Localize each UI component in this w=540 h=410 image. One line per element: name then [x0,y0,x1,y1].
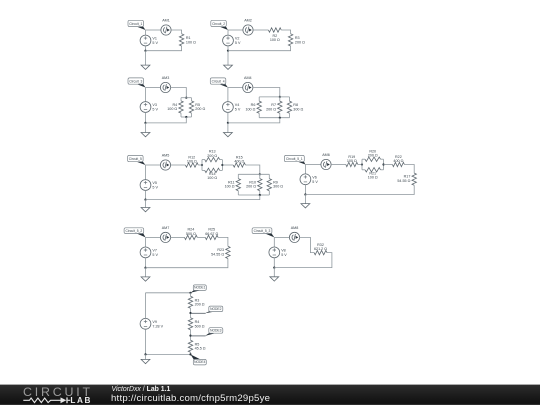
wire V5 to bottom rail [145,190,147,199]
wire AM6 to R19 [331,164,346,166]
svg-text:VictorDxx / Lab 1.1: VictorDxx / Lab 1.1 [112,386,171,393]
ground [141,123,150,137]
junction NODE3 [189,335,191,337]
ammeter AM4 [243,82,253,92]
flag NODE1 [191,285,207,293]
flag Circuit_5 [128,155,146,165]
wire into R20 [362,158,365,160]
label R10 200 [246,180,256,188]
svg-text:Circuit_5_2: Circuit_5_2 [126,229,143,233]
wire node to V1 [145,30,147,35]
resistor R14 [205,168,220,172]
wire out of R8 [289,113,291,117]
wire left edge R20-R21 [361,159,363,170]
svg-text:5 V: 5 V [312,180,318,184]
label V9 7.28 V [152,320,163,328]
resistor R12 [185,163,198,167]
wire top edge R4-R5 [181,97,192,99]
wire pair to R22 [384,164,393,166]
label V1 5 V [152,37,158,45]
wire into R13 [202,159,205,161]
wire R5d to bottom rail [190,352,192,354]
junction bottom node circuit 8 [273,267,275,269]
label R32 621.2 [314,243,327,251]
ammeter AM5 [160,160,170,170]
wire R23 to bottom rail [146,259,228,268]
svg-text:AM2: AM2 [244,19,252,23]
label R11 100 [225,180,235,188]
label R24 500 [186,228,196,236]
voltage source V8 [269,247,280,258]
wire V6 to bottom rail [304,185,306,195]
ground [301,195,310,208]
junction bottom of R4 R5 pair [185,116,187,118]
ammeter AM1 [161,25,171,35]
svg-text:NODE3: NODE3 [210,329,222,333]
resistor R3 [288,34,292,46]
resistor R9 [267,179,271,191]
wire node to V3 [145,88,147,102]
label R5 45.5 divider [195,342,206,350]
label V7 5 V [152,249,158,257]
label AM3 [162,76,170,80]
junction top of R11 R10 R9 trio [259,173,261,175]
wire into R11 [237,174,239,178]
resistor R6 [257,101,261,113]
wire AM8 to R32 [300,237,315,252]
junction bottom node circuit 3 [144,122,146,124]
label R6 100 [245,103,255,111]
wire AM5 to R12 [171,164,186,166]
resistor R5 [189,101,193,113]
wire R25 to R23 [218,237,228,246]
wire into R8 [289,97,291,101]
svg-text:Circuit_5_1: Circuit_5_1 [286,157,303,161]
junction bottom of trio [279,117,281,119]
svg-text:NODE2: NODE2 [210,307,222,311]
voltage source V5 [140,180,151,191]
svg-text:100 Ω: 100 Ω [245,107,255,111]
svg-text:100 Ω: 100 Ω [207,176,217,180]
resistor R7 [278,101,282,113]
junction bottom node circuit 4 [227,122,229,124]
svg-text:Circuit_4: Circuit_4 [212,80,225,84]
wire R24 to R25 [197,236,205,238]
flag NODE3 [191,328,223,336]
resistor R13 [205,157,220,161]
wire bottom rail divider [146,353,191,355]
label V8 5 V [281,249,287,257]
wire R17 to bottom rail [305,185,414,194]
wire out of R5 [191,113,193,117]
voltage source V4 [223,102,234,113]
wire node to V4 [227,88,229,102]
wire out of R21 [381,169,384,171]
ammeter AM2 [243,25,253,35]
wire out of R6 [258,113,260,117]
wire top edge R11-R10-R9 [238,173,269,175]
wire AM1 to R1 [171,30,182,34]
resistor R22 [392,162,404,166]
svg-text:500 Ω: 500 Ω [195,324,205,328]
wire R32 to bottom rail [274,253,332,268]
voltage source V7 [140,247,151,258]
svg-text:Circuit_1: Circuit_1 [129,22,142,26]
svg-text:500 Ω: 500 Ω [186,232,196,236]
svg-text:7.28 V: 7.28 V [152,324,163,328]
resistor R2 [268,28,281,32]
wire node to AM5 [146,164,161,166]
junction bottom node circuit 5 [144,199,146,201]
wire bottom edge trio [238,194,269,196]
ground divider [141,354,150,363]
label V6 5 V [312,176,318,184]
wire R4d to R5d [190,330,192,340]
ammeter AM3 [160,82,170,92]
junction divider ground [144,353,146,355]
label AM7 [162,226,170,230]
junction bottom of trio C5 [259,194,261,196]
label R20 200 [368,149,378,157]
flag NODE2 [191,306,223,313]
svg-text:54.55 Ω: 54.55 Ω [397,179,410,183]
wire bottom edge R6-R7-R8 [259,117,289,119]
wire R12 to pair box [198,164,202,166]
svg-text:5 V: 5 V [281,253,287,257]
wire out of R9 [268,191,270,195]
flag NODE4 [191,354,207,365]
svg-text:400 Ω: 400 Ω [393,159,403,163]
svg-text:LAB: LAB [70,396,92,405]
wire into R6 [258,97,260,101]
wire out of R13 [220,159,223,161]
voltage source V9 [140,318,151,329]
svg-text:AM4: AM4 [244,76,252,80]
svg-text:5 V: 5 V [152,108,158,112]
wire R15 to trio box [245,165,259,174]
wire to V9 top [145,293,147,319]
wire NODE1 to R3d [190,293,192,296]
svg-text:100 Ω: 100 Ω [347,159,357,163]
flag Circuit_5_1 [284,155,305,164]
label V4 5 V [235,103,241,111]
CircuitLab logo [23,385,93,405]
wire out of R20 [381,158,384,160]
svg-text:200 Ω: 200 Ω [295,41,305,45]
svg-text:Circuit_3: Circuit_3 [129,80,142,84]
junction right of pair C6 [382,163,384,165]
wire node to V6 [304,165,306,174]
junction left of R13 R14 pair [201,164,203,166]
resistor R10 [258,179,262,191]
junction top of R6 R7 R8 trio [279,96,281,98]
wire right edge R20-R21 [383,159,385,170]
wire trio to bottom rail [228,118,280,123]
label V3 5 V [152,103,158,111]
ground [270,268,279,282]
wire top edge R6-R7-R8 [259,96,289,98]
wire R1 to bottom rail [146,46,182,51]
wire into R5 [191,98,193,101]
junction bottom node circuit 7 [144,267,146,269]
wire trio to bottom rail C5 [146,195,260,200]
flag Circuit_3 [128,78,146,88]
resistor R4 divider [188,318,192,330]
flag Circuit_5_3 [252,228,274,238]
ground [141,200,150,212]
svg-text:621.2 Ω: 621.2 Ω [314,247,327,251]
svg-text:200 Ω: 200 Ω [266,107,276,111]
label R23 54.55 [211,248,224,256]
svg-text:http://circuitlab.com/cfnp5rm2: http://circuitlab.com/cfnp5rm29p5ye [111,393,270,404]
label R19 100 [347,155,357,163]
svg-text:300 Ω: 300 Ω [293,107,303,111]
label AM2 [244,19,252,23]
wire node to V8 [273,237,275,247]
flag Circuit_1 [128,20,146,30]
ammeter AM8 [289,232,299,242]
svg-text:AM7: AM7 [162,226,170,230]
wire node to AM3 [146,87,161,89]
svg-text:AM1: AM1 [162,19,170,23]
label AM5 [162,154,170,158]
wire top rail divider [146,292,191,294]
wire into R10 [259,174,261,178]
resistor R4 [179,101,183,113]
label R4 500 divider [195,320,205,328]
resistor R32 [314,250,327,254]
svg-text:54.55 Ω: 54.55 Ω [211,252,224,256]
label R21 100 [368,171,378,179]
wire into R21 [362,169,365,171]
wire node to V7 [145,237,147,247]
wire V4 to bottom rail [227,112,229,123]
label R3 200 [295,36,305,44]
wire node to AM1 [146,29,161,31]
junction NODE2 [189,312,191,314]
svg-text:200 Ω: 200 Ω [246,185,256,189]
label AM4 [244,76,252,80]
wire R3d to R4d [190,308,192,318]
svg-text:200 Ω: 200 Ω [195,303,205,307]
wire into R9 [268,174,270,178]
wire pair to bottom rail [146,117,187,123]
svg-text:5 V: 5 V [152,186,158,190]
ammeter AM7 [160,232,170,242]
svg-text:100 Ω: 100 Ω [186,41,196,45]
ground [224,123,233,137]
wire V2 to bottom rail [227,46,229,51]
resistor R21 [365,168,381,172]
label R4 100 [167,103,177,111]
resistor R5 divider [188,340,192,352]
svg-text:200 Ω: 200 Ω [207,154,217,158]
wire V3 to bottom rail [145,112,147,123]
wire pair to R15 [222,164,233,166]
resistor R20 [365,157,381,161]
wire out of R4 [180,113,182,117]
svg-text:300 Ω: 300 Ω [273,185,283,189]
label R12 100 [187,155,197,163]
wire out of R11 [237,191,239,195]
wire V1 to bottom rail [145,46,147,51]
label R2 100 [270,34,280,42]
svg-text:5 V: 5 V [152,253,158,257]
svg-text:400 Ω: 400 Ω [234,160,244,164]
svg-text:5 V: 5 V [152,41,158,45]
svg-text:AM5: AM5 [162,154,170,158]
junction bottom node circuit 2 [227,50,229,52]
svg-text:100 Ω: 100 Ω [225,185,235,189]
svg-text:Circuit_5_3: Circuit_5_3 [254,229,271,233]
svg-text:AM8: AM8 [291,226,299,230]
ground [224,51,233,70]
resistor R17 [412,173,416,185]
resistor R15 [233,163,245,167]
resistor R3 divider [188,296,192,308]
voltage source V2 [223,35,234,46]
junction top of R4 R5 pair [185,97,187,99]
svg-text:NODE1: NODE1 [194,286,206,290]
wire AM3 to parallel pair [171,88,187,98]
svg-text:200 Ω: 200 Ω [368,154,378,158]
wire node to AM6 [305,164,321,166]
label R22 400 [393,155,403,163]
ground [141,268,150,282]
wire right edge R13-R14 [221,160,223,171]
wire bottom edge R4-R5 [181,116,192,118]
label R17 54.55 [397,175,410,183]
svg-text:5 V: 5 V [235,41,241,45]
ammeter AM6 [321,159,331,169]
svg-text:NODE4: NODE4 [194,360,206,364]
svg-text:100 Ω: 100 Ω [270,38,280,42]
label AM1 [162,19,170,23]
label V5 5 V [152,181,158,189]
svg-text:AM3: AM3 [162,76,170,80]
junction NODE1 [189,292,191,294]
wire into R14 [202,169,205,171]
label AM8 [291,226,299,230]
label V2 5 V [235,37,241,45]
wire out of R7 [279,113,281,117]
resistor R25 [205,235,218,239]
wire node to V5 [145,165,147,180]
flag Circuit_4 [210,78,228,88]
voltage source V1 [140,35,151,46]
label R9 300 [273,180,283,188]
svg-text:5 V: 5 V [235,108,241,112]
wire R2 to R3 [281,30,290,34]
label R1 100 [186,36,196,44]
wire AM7 to R24 [171,236,185,238]
svg-text:Circuit_2: Circuit_2 [212,22,225,26]
label R13 200 [207,150,217,158]
flag Circuit_5_2 [124,228,145,238]
junction NODE4 [189,353,191,355]
wire out of R10 [259,191,261,195]
junction right of pair [221,164,223,166]
svg-text:AM6: AM6 [322,153,330,157]
wire R3 to bottom rail [228,46,291,51]
wire R19 to pair box C6 [358,164,362,166]
svg-text:100 Ω: 100 Ω [167,107,177,111]
resistor R11 [236,179,240,191]
resistor R24 [185,235,198,239]
label AM6 [322,153,330,157]
resistor R1 [179,34,183,46]
label R5 200 [195,103,205,111]
label R25 66.67 [205,228,218,236]
wire AM2 to R2 [253,29,268,31]
junction bottom node circuit 1 [144,50,146,52]
wire node to AM4 [228,87,243,89]
wire V8 to bottom rail [273,258,275,268]
resistor R8 [287,101,291,113]
label R15 400 [234,155,244,163]
svg-text:100 Ω: 100 Ω [187,160,197,164]
ground [141,51,150,70]
wire V9 to bottom rail [145,329,147,354]
wire node to V2 [227,30,229,35]
wire left edge R13-R14 [201,160,203,171]
voltage source V6 [300,174,311,185]
junction left of R20 R21 pair [361,163,363,165]
svg-text:200 Ω: 200 Ω [195,107,205,111]
wire V7 to bottom rail [145,258,147,268]
resistor R23 [226,246,230,258]
svg-text:Circuit_5: Circuit_5 [129,157,142,161]
label R3 200 divider [195,298,205,306]
wire node to AM2 [228,29,243,31]
label R14 100 [207,172,217,180]
wire R22 to R17 [404,165,414,174]
wire into R7 [279,97,281,101]
svg-text:100 Ω: 100 Ω [368,176,378,180]
label R8 300 [293,103,303,111]
svg-text:45.5 Ω: 45.5 Ω [195,347,206,351]
voltage source V3 [140,102,151,113]
wire node to AM7 [146,236,161,238]
wire node to AM8 [274,236,289,238]
junction bottom node circuit 6 [304,193,306,195]
label R7 200 [266,103,276,111]
wire into R4 [180,98,182,101]
wire AM4 to parallel trio [253,88,280,97]
wire out of R14 [220,169,223,171]
svg-text:66.67 Ω: 66.67 Ω [205,232,218,236]
resistor R19 [346,162,358,166]
flag Circuit_2 [211,20,228,30]
